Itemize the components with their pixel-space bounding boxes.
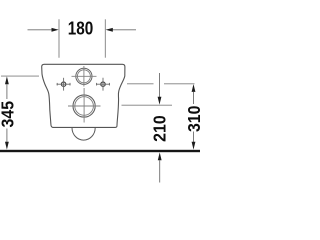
svg-text:310: 310: [184, 105, 200, 132]
svg-text:210: 210: [149, 115, 169, 142]
svg-text:180: 180: [68, 19, 94, 39]
svg-text:345: 345: [0, 101, 18, 128]
